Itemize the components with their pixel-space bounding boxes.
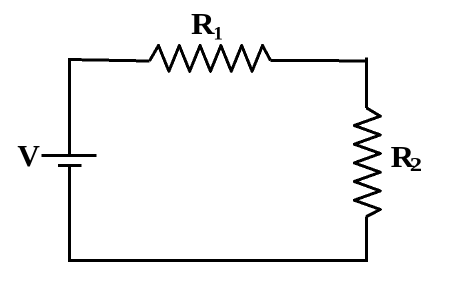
svg-text:V: V bbox=[17, 139, 40, 173]
svg-text:R: R bbox=[191, 7, 216, 41]
battery V: short (negative) plate bbox=[58, 164, 81, 167]
wire: bottom, right corner to left corner bbox=[68, 259, 368, 262]
wire: R2 bottom lead down to bottom-right corner bbox=[365, 217, 368, 262]
wire: left vertical, battery top plate up to top-left corner bbox=[68, 58, 71, 156]
battery V: long (positive) plate bbox=[42, 154, 97, 157]
wire: left vertical, bottom corner up to battery bottom plate bbox=[68, 165, 71, 262]
wire: R1 right lead to top-right corner bbox=[271, 59, 368, 63]
resistor R2 bbox=[354, 108, 380, 217]
svg-text:2: 2 bbox=[410, 155, 422, 176]
svg-text:1: 1 bbox=[213, 24, 223, 45]
resistor R1 bbox=[150, 46, 271, 72]
wire: top-left corner to R1 left lead bbox=[68, 58, 70, 60]
wire: right vertical, top-right corner down to R2 bbox=[365, 58, 368, 108]
